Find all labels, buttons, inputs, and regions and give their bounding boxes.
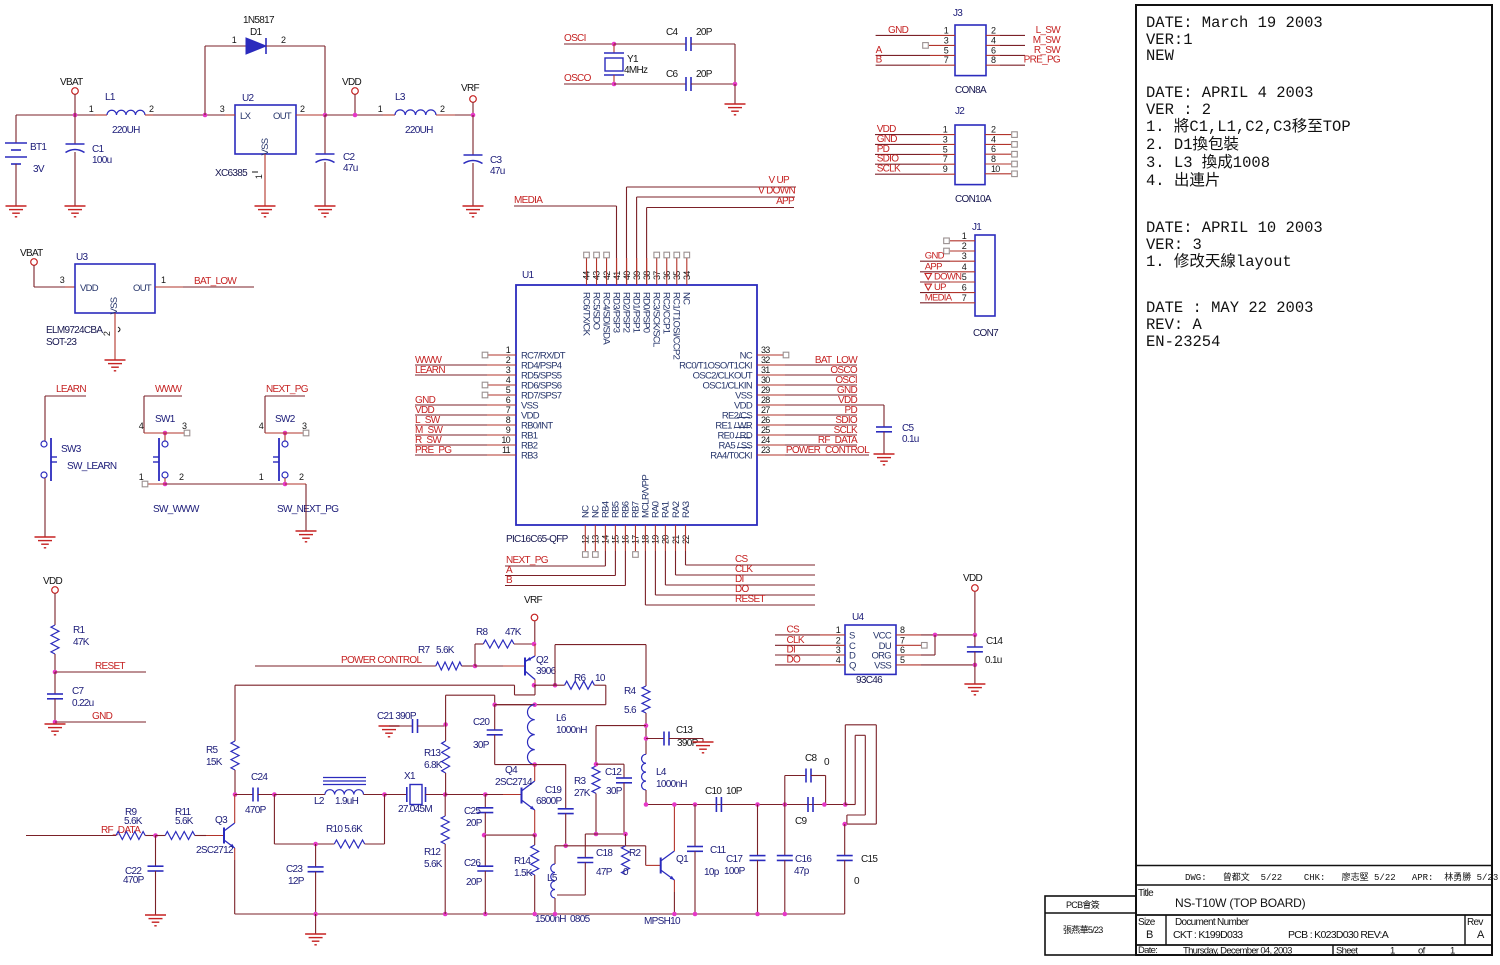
svg-text:0.1u: 0.1u	[985, 655, 1002, 666]
svg-text:RC2/CCP1: RC2/CCP1	[661, 292, 672, 334]
svg-text:Q1: Q1	[676, 854, 689, 865]
svg-text:1: 1	[1390, 946, 1395, 957]
transistor Q3 2SC2712	[196, 795, 235, 915]
capacitor C25	[464, 795, 493, 836]
capacitor C23	[286, 844, 324, 914]
svg-text:NC: NC	[681, 292, 692, 305]
capacitor C5	[876, 423, 919, 454]
svg-text:7: 7	[900, 635, 905, 645]
svg-text:Date:: Date:	[1138, 945, 1157, 956]
node R3 bottom row	[585, 832, 628, 837]
svg-text:47u: 47u	[343, 163, 358, 174]
svg-text:10P: 10P	[726, 786, 743, 797]
eeprom U4 pins	[775, 624, 905, 671]
node R9 C22	[153, 833, 165, 838]
svg-text:SW_LEARN: SW_LEARN	[67, 461, 117, 472]
svg-text:DATE: APRIL 10 2003: DATE: APRIL 10 2003	[1146, 219, 1323, 237]
resistor R12	[424, 795, 449, 915]
net label NEXT_PG	[265, 384, 309, 433]
wire to D1	[205, 46, 246, 115]
svg-text:RC6/TX/CK: RC6/TX/CK	[580, 292, 591, 337]
svg-text:9: 9	[943, 164, 948, 174]
crystal X1 27.045M	[385, 771, 446, 815]
svg-text:C2: C2	[343, 152, 356, 163]
svg-text:L2: L2	[314, 796, 325, 807]
svg-text:1: 1	[259, 472, 264, 482]
svg-text:R13: R13	[424, 748, 441, 759]
net label A bottom	[505, 525, 615, 576]
svg-text:NEXT_PG: NEXT_PG	[266, 384, 309, 395]
svg-text:23: 23	[761, 445, 770, 455]
wire U3 VSS to ground	[114, 313, 116, 360]
svg-text:2: 2	[962, 241, 967, 251]
svg-text:J1: J1	[972, 222, 982, 233]
net label DO	[655, 525, 815, 595]
svg-text:VRF: VRF	[524, 595, 542, 606]
svg-text:S: S	[849, 630, 855, 641]
connector J1 pins	[920, 231, 975, 303]
ground below BT1	[6, 206, 27, 217]
node VRF R8 junction	[532, 642, 537, 647]
svg-text:6: 6	[962, 283, 967, 293]
svg-text:3: 3	[836, 645, 841, 655]
net label OSCO	[564, 73, 614, 84]
crystal Y1 4MHz	[604, 44, 648, 84]
svg-text:C9: C9	[795, 816, 808, 827]
svg-text:5.6K: 5.6K	[175, 816, 194, 827]
power symbol VDD U4	[963, 573, 982, 635]
svg-text:3: 3	[302, 421, 307, 431]
wire R4 bottom	[645, 713, 647, 754]
svg-text:1.9uH: 1.9uH	[335, 796, 359, 807]
svg-text:11: 11	[502, 445, 511, 455]
svg-text:20P: 20P	[696, 27, 713, 38]
node C13 row	[644, 736, 664, 741]
svg-text:47K: 47K	[73, 637, 90, 648]
svg-text:47u: 47u	[490, 166, 505, 177]
svg-text:220UH: 220UH	[405, 125, 433, 136]
bottom ground rail	[235, 912, 845, 917]
node C21 R13	[443, 695, 494, 727]
svg-text:47P: 47P	[596, 867, 613, 878]
svg-text:6.8K: 6.8K	[424, 760, 443, 771]
svg-text:C7: C7	[72, 686, 85, 697]
svg-text:NEW: NEW	[1146, 47, 1175, 65]
svg-text:3: 3	[962, 251, 967, 261]
svg-text:3906: 3906	[536, 666, 557, 677]
svg-text:5: 5	[943, 144, 948, 154]
wire U4 DU NC	[896, 643, 927, 649]
resistor R4	[624, 686, 650, 716]
svg-text:1: 1	[89, 104, 94, 114]
capacitor C18	[557, 834, 613, 895]
svg-text:20P: 20P	[696, 69, 713, 80]
svg-text:張燕華5/23: 張燕華5/23	[1063, 924, 1103, 935]
svg-text:VDD: VDD	[43, 576, 62, 587]
svg-text:VDD: VDD	[80, 283, 99, 294]
svg-text:1: 1	[944, 25, 949, 35]
switch SW1 SW_WWW	[139, 414, 200, 515]
resistor R10 loop	[274, 795, 384, 849]
wire VBAT rail	[16, 114, 225, 116]
svg-text:V DOWN: V DOWN	[758, 186, 795, 197]
mcu U1 bottom pins	[581, 475, 692, 558]
capacitor C4	[666, 27, 735, 51]
svg-text:VER : 2: VER : 2	[1146, 101, 1211, 119]
svg-text:OSCO: OSCO	[564, 73, 592, 84]
svg-text:C8: C8	[805, 753, 818, 764]
svg-text:SCLK: SCLK	[877, 164, 901, 175]
transistor Q2 3906	[475, 644, 557, 685]
svg-text:J3: J3	[953, 8, 963, 19]
title block date row	[1138, 945, 1455, 957]
svg-text:3. L3 換成1008: 3. L3 換成1008	[1146, 153, 1270, 172]
svg-text:3: 3	[943, 134, 948, 144]
svg-text:30: 30	[761, 375, 770, 385]
svg-text:220UH: 220UH	[112, 125, 140, 136]
svg-text:20P: 20P	[466, 877, 483, 888]
svg-text:7: 7	[962, 293, 967, 303]
svg-text:POWER CONTROL: POWER CONTROL	[341, 655, 422, 666]
diode D1 1N5817	[232, 15, 325, 54]
svg-text:10: 10	[595, 673, 606, 684]
node C17 top	[755, 802, 760, 807]
svg-text:Sheet: Sheet	[1336, 946, 1358, 957]
svg-text:ELM9724CBA: ELM9724CBA	[46, 325, 103, 336]
svg-text:GND: GND	[925, 251, 945, 262]
svg-text:4: 4	[139, 421, 144, 431]
svg-text:C20: C20	[473, 717, 490, 728]
wire loop to R4	[555, 645, 646, 686]
svg-text:L5: L5	[547, 873, 558, 884]
svg-text:VCC: VCC	[873, 630, 892, 641]
svg-text:1: 1	[962, 231, 967, 241]
svg-text:R3: R3	[574, 776, 587, 787]
svg-text:OUT: OUT	[273, 111, 292, 122]
node antenna C15	[842, 822, 847, 827]
svg-text:L4: L4	[656, 767, 667, 778]
svg-text:27: 27	[761, 405, 770, 415]
svg-text:R1: R1	[73, 625, 86, 636]
net label MEDIA	[514, 195, 617, 285]
svg-text:1. 修改天線layout: 1. 修改天線layout	[1146, 252, 1292, 271]
resistor R3	[574, 741, 600, 834]
svg-text:U1: U1	[522, 270, 535, 281]
inductor L1	[89, 92, 154, 136]
svg-text:4. 出連片: 4. 出連片	[1146, 171, 1220, 190]
svg-text:29: 29	[761, 385, 770, 395]
svg-text:5.6K: 5.6K	[124, 816, 143, 827]
svg-text:24: 24	[761, 435, 770, 445]
svg-text:CON10A: CON10A	[955, 194, 992, 205]
wire C14 to ground	[974, 665, 976, 684]
svg-text:SW_WWW: SW_WWW	[153, 504, 200, 515]
svg-text:33: 33	[761, 345, 770, 355]
svg-text:C16: C16	[795, 854, 812, 865]
capacitor C1	[66, 115, 112, 206]
ground right of C13	[693, 739, 714, 753]
capacitor C13	[664, 725, 703, 749]
svg-text:Rev: Rev	[1467, 917, 1483, 928]
svg-text:7: 7	[506, 405, 511, 415]
svg-text:3V: 3V	[33, 164, 45, 175]
svg-text:PRE_PG: PRE_PG	[415, 445, 452, 456]
svg-text:3: 3	[60, 275, 65, 285]
wire C4 C6 join	[733, 44, 738, 104]
svg-text:1.5K: 1.5K	[514, 868, 533, 879]
svg-text:2: 2	[991, 125, 996, 135]
resistor R6	[555, 673, 606, 689]
svg-text:C5: C5	[902, 423, 915, 434]
svg-text:VBAT: VBAT	[60, 77, 83, 88]
svg-text:DATE : MAY 22 2003: DATE : MAY 22 2003	[1146, 299, 1313, 317]
net label POWER_CONTROL	[255, 655, 436, 666]
svg-text:5: 5	[962, 272, 967, 282]
net label WWW	[144, 384, 182, 433]
power symbol VRF Q2	[524, 595, 542, 644]
svg-text:Thursday, December 04, 2003: Thursday, December 04, 2003	[1183, 946, 1292, 957]
svg-text:U3: U3	[76, 252, 89, 263]
svg-text:5: 5	[944, 45, 949, 55]
svg-text:VER: 3: VER: 3	[1146, 236, 1202, 254]
ground below C7	[45, 724, 66, 735]
svg-text:X1: X1	[404, 771, 416, 782]
svg-text:VSS: VSS	[874, 660, 891, 671]
svg-text:2SC2714: 2SC2714	[495, 777, 533, 788]
inductor L5	[547, 846, 558, 914]
node VDD junction	[323, 113, 395, 118]
svg-text:6: 6	[991, 45, 996, 55]
svg-text:DO: DO	[787, 654, 802, 665]
svg-text:31: 31	[761, 365, 770, 375]
wire collector row jog	[430, 685, 535, 695]
capacitor C10	[705, 786, 743, 812]
svg-text:2: 2	[440, 104, 445, 114]
net label OSCI	[564, 33, 614, 44]
svg-text:VDD: VDD	[963, 573, 982, 584]
resistor R7	[418, 645, 475, 670]
svg-text:B: B	[1146, 929, 1153, 941]
svg-text:10p: 10p	[704, 867, 720, 878]
resistor R2	[622, 834, 642, 878]
wire to Q4 base	[485, 794, 521, 796]
svg-text:12P: 12P	[288, 876, 305, 887]
svg-text:Q: Q	[849, 660, 856, 671]
svg-text:LEARN: LEARN	[415, 365, 445, 376]
wire U4 VSS to C14	[896, 663, 977, 668]
svg-text:MPSH10: MPSH10	[644, 916, 681, 927]
svg-text:Size: Size	[1138, 917, 1156, 928]
svg-text:3: 3	[182, 421, 187, 431]
svg-text:1: 1	[836, 625, 841, 635]
svg-text:2: 2	[102, 331, 112, 336]
capacitor C22	[123, 836, 164, 916]
node C14 top	[973, 633, 978, 638]
node VBAT junction C1	[73, 113, 78, 118]
svg-text:25: 25	[761, 425, 770, 435]
ground below rail	[305, 914, 326, 945]
svg-text:MEDIA: MEDIA	[925, 292, 953, 303]
svg-text:GND: GND	[92, 711, 113, 722]
pcb sign box	[1045, 896, 1136, 955]
svg-text:2: 2	[299, 472, 304, 482]
title block title	[1138, 888, 1306, 910]
svg-text:2: 2	[991, 25, 996, 35]
capacitor C12 loop	[596, 764, 632, 834]
svg-text:7: 7	[944, 55, 949, 65]
net label GND	[53, 711, 146, 724]
svg-text:2: 2	[281, 35, 286, 45]
svg-text:5.6K: 5.6K	[436, 645, 455, 656]
resistor R5	[206, 741, 239, 795]
svg-text:6: 6	[991, 144, 996, 154]
net label CS	[686, 525, 816, 565]
svg-text:C23: C23	[286, 864, 303, 875]
title block docnum	[1173, 917, 1389, 941]
node LX junction	[203, 113, 208, 118]
svg-text:8: 8	[991, 55, 996, 65]
node L2 left	[272, 792, 277, 797]
net label B bottom	[505, 525, 625, 586]
ground below C2	[315, 206, 336, 217]
svg-text:1: 1	[161, 275, 166, 285]
power symbol VBAT	[60, 77, 83, 115]
net label LEARN	[45, 384, 86, 441]
capacitor C16	[777, 805, 813, 915]
capacitor C26	[464, 835, 493, 914]
node R7 R8 junction	[473, 644, 478, 668]
svg-text:6: 6	[506, 395, 511, 405]
svg-text:2: 2	[506, 355, 511, 365]
svg-text:CON8A: CON8A	[955, 85, 987, 96]
node C19 L5 row	[555, 844, 646, 849]
node OSCO junction	[612, 82, 686, 87]
svg-text:NS-T10W (TOP BOARD): NS-T10W (TOP BOARD)	[1175, 896, 1306, 910]
svg-text:1: 1	[254, 174, 264, 179]
svg-text:XC6385: XC6385	[215, 168, 248, 179]
wire R6 right down	[495, 685, 606, 705]
svg-text:VRF: VRF	[461, 83, 479, 94]
battery BT1	[5, 115, 47, 206]
svg-text:470P: 470P	[123, 875, 145, 886]
title block dwg row	[1185, 871, 1498, 883]
node OSCI junction	[612, 42, 686, 47]
svg-text:RD1/PSP1: RD1/PSP1	[630, 292, 641, 333]
svg-text:LEARN: LEARN	[56, 384, 86, 395]
capacitor C17	[724, 805, 766, 915]
svg-text:15K: 15K	[206, 757, 223, 768]
svg-text:3: 3	[220, 104, 225, 114]
svg-text:R4: R4	[624, 686, 637, 697]
svg-text:9: 9	[506, 425, 511, 435]
svg-text:WWW: WWW	[155, 384, 182, 395]
svg-text:POWER_CONTROL: POWER_CONTROL	[786, 445, 870, 456]
capacitor C8 loop	[785, 753, 830, 805]
svg-text:OSCI: OSCI	[564, 33, 586, 44]
svg-text:R7: R7	[418, 645, 431, 656]
net label NEXT_PG bottom	[505, 525, 605, 566]
power symbol VDD R1	[43, 576, 62, 625]
title block size	[1138, 917, 1156, 941]
svg-text:R12: R12	[424, 847, 441, 858]
svg-text:NEXT_PG: NEXT_PG	[506, 555, 549, 566]
svg-text:27K: 27K	[574, 788, 591, 799]
svg-text:47K: 47K	[505, 627, 522, 638]
wire VBAT to U3	[34, 265, 75, 287]
svg-text:2: 2	[179, 472, 184, 482]
svg-text:2: 2	[300, 104, 305, 114]
eeprom U4 93C46 box	[845, 612, 896, 686]
svg-text:SW3: SW3	[61, 444, 82, 455]
ground below U2	[255, 206, 276, 217]
ground below SW3	[35, 537, 56, 548]
svg-text:REV: A: REV: A	[1146, 316, 1203, 334]
svg-text:RC4/SDI/SDA: RC4/SDI/SDA	[600, 292, 611, 345]
svg-text:VSS: VSS	[260, 138, 271, 155]
svg-text:100P: 100P	[724, 866, 746, 877]
node R6 left	[534, 683, 557, 688]
svg-text:8: 8	[506, 415, 511, 425]
svg-text:4: 4	[991, 35, 996, 45]
ground below U3	[105, 360, 126, 371]
svg-text:30P: 30P	[473, 740, 490, 751]
node L6 top	[495, 702, 537, 707]
svg-text:PCB會簽: PCB會簽	[1066, 899, 1100, 910]
resistor R14	[514, 835, 539, 914]
svg-text:10: 10	[501, 435, 510, 445]
connector J3 pins	[876, 25, 1062, 66]
svg-text:C21 390P: C21 390P	[377, 711, 417, 722]
svg-text:27.045M: 27.045M	[398, 804, 432, 815]
svg-text:1N5817: 1N5817	[243, 15, 275, 26]
svg-text:MEDIA: MEDIA	[514, 195, 543, 206]
svg-text:RC1/T1OSI/CCP2: RC1/T1OSI/CCP2	[671, 292, 682, 360]
wire SW2 to ground	[305, 484, 307, 531]
svg-text:C11: C11	[710, 845, 727, 856]
mcu U1 left pins	[415, 345, 566, 462]
svg-text:1: 1	[1450, 946, 1455, 957]
svg-text:4: 4	[962, 262, 967, 272]
svg-text:C13: C13	[676, 725, 693, 736]
svg-text:7: 7	[943, 154, 948, 164]
svg-text:RD0/PSP0: RD0/PSP0	[640, 292, 651, 333]
inductor L3	[378, 92, 474, 136]
capacitor C19	[536, 765, 574, 846]
resistor R1	[51, 625, 90, 672]
notes panel frame	[1136, 5, 1492, 955]
svg-text:J2: J2	[955, 106, 965, 117]
connector J1 CON7 box	[972, 222, 999, 339]
wire collector row left	[235, 685, 430, 741]
svg-text:5: 5	[900, 655, 905, 665]
svg-text:B: B	[506, 575, 513, 586]
node R13 bottom	[443, 792, 448, 797]
node C8 rejoin	[822, 802, 827, 807]
resistor R13	[424, 725, 450, 795]
svg-text:4: 4	[506, 375, 511, 385]
svg-text:L3: L3	[395, 92, 406, 103]
svg-text:RC3/SCK/SCL: RC3/SCK/SCL	[651, 292, 662, 347]
svg-text:10: 10	[991, 164, 1000, 174]
inductor L2 with core	[274, 778, 384, 808]
svg-text:4: 4	[991, 134, 996, 144]
svg-text:BAT_LOW: BAT_LOW	[194, 276, 237, 287]
capacitor C24	[235, 772, 274, 816]
svg-text:Document Number: Document Number	[1175, 917, 1250, 928]
svg-text:1000nH: 1000nH	[656, 779, 687, 790]
net label APP	[647, 196, 795, 285]
svg-text:C24: C24	[251, 772, 268, 783]
